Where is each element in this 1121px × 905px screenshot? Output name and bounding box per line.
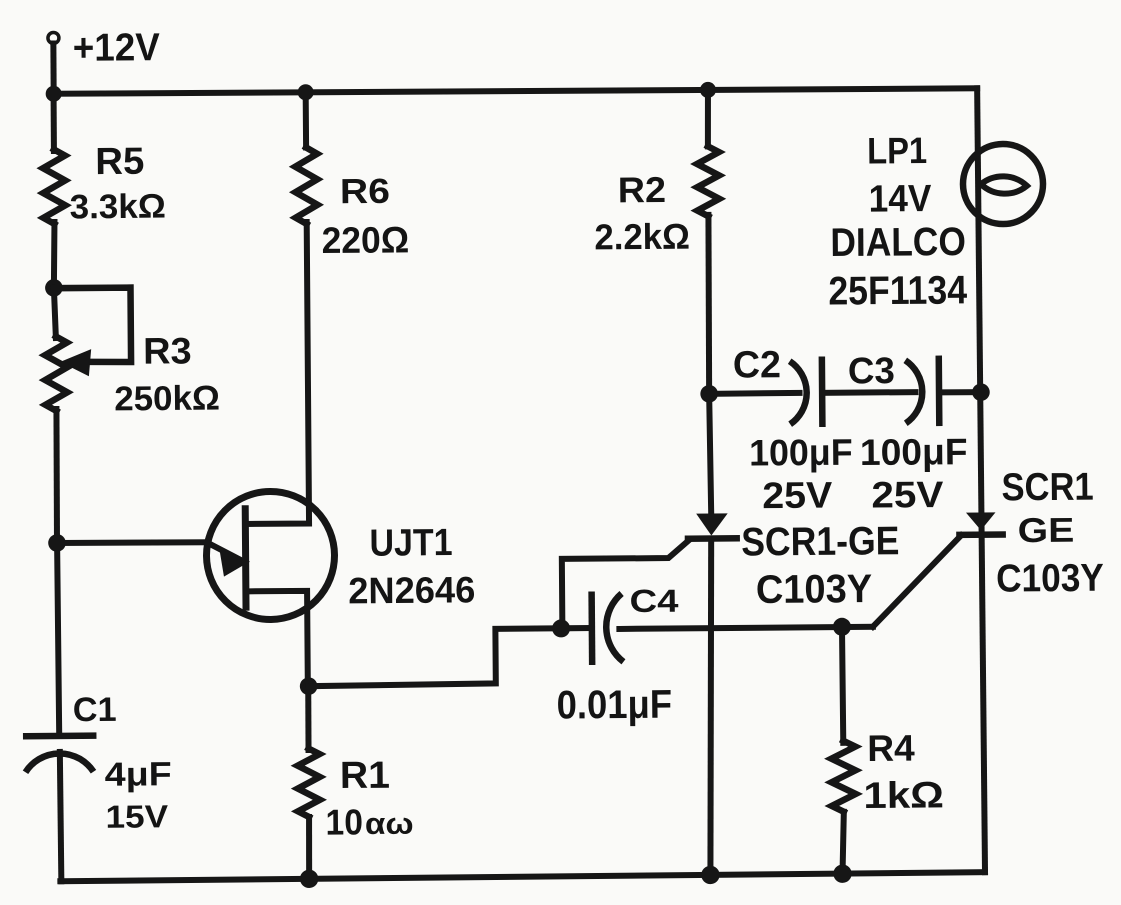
wire R3 wiper loop: [54, 288, 131, 363]
svg-text:C103Y: C103Y: [996, 557, 1104, 601]
svg-text:UJT1: UJT1: [369, 522, 452, 565]
capacitor C1 plate top: [26, 732, 93, 739]
svg-text:R5: R5: [95, 141, 144, 183]
op-amp U1 UJT1 circle: [206, 491, 335, 620]
capacitor C2 plate curved: [790, 361, 807, 424]
capacitor C1 plate curved: [25, 753, 93, 772]
resistor R2: [697, 146, 720, 216]
wire emitter horizontal: [57, 542, 207, 544]
wire R3 to emitter node: [56, 409, 58, 543]
node R2 top junction: [700, 82, 716, 98]
svg-text:2.2kΩ: 2.2kΩ: [594, 216, 690, 258]
svg-text:10: 10: [325, 801, 363, 842]
capacitor C4 plate straight: [588, 595, 595, 662]
wire R4 bottom lead: [842, 812, 844, 874]
svg-text:15V: 15V: [105, 798, 169, 834]
wire SCR1 gate diagonal: [872, 535, 962, 626]
svg-text:250kΩ: 250kΩ: [114, 380, 220, 419]
capacitor C3 plate straight: [936, 359, 943, 423]
wire cap row node to SCR anode: [709, 394, 711, 512]
lamp LP1 filament lens: [981, 176, 1027, 194]
thyristor SCR1 triangle: [966, 512, 996, 530]
svg-text:25V: 25V: [762, 475, 833, 517]
terminal +12V: [48, 32, 59, 43]
wire emitter node to C1: [57, 543, 59, 733]
svg-text:R1: R1: [340, 755, 390, 797]
wire cap row: [709, 390, 799, 397]
capacitor C2 plate straight: [819, 360, 826, 424]
svg-text:25V: 25V: [871, 474, 944, 516]
svg-text:C1: C1: [73, 691, 117, 729]
wire SCR1-GE cathode down: [708, 539, 714, 875]
potentiometer R3 arrow: [60, 349, 91, 376]
svg-text:LP1: LP1: [867, 130, 927, 171]
svg-text:C3: C3: [848, 350, 895, 391]
node R4 top junction: [833, 618, 851, 636]
wire R1 bottom lead: [306, 817, 313, 879]
svg-text:100μF: 100μF: [860, 431, 968, 473]
node emitter junction: [48, 534, 66, 552]
transistor UJT1 base bar: [242, 509, 250, 607]
resistor R6: [295, 147, 318, 224]
svg-text:R4: R4: [867, 728, 915, 769]
svg-text:2N2646: 2N2646: [348, 569, 475, 611]
svg-text:R2: R2: [618, 169, 667, 210]
node R6 top junction: [298, 84, 314, 100]
svg-text:R6: R6: [340, 172, 390, 211]
node SCR1-GE bottom junction: [701, 866, 720, 885]
capacitor C3 plate curved: [905, 360, 922, 423]
wire R6 top lead: [303, 92, 309, 147]
wire bottom rail: [60, 872, 985, 881]
wire step B1 to C4 node horizontal1: [308, 628, 561, 686]
svg-text:100μF: 100μF: [749, 432, 853, 474]
node left rail top junction: [46, 86, 62, 102]
node R3 top junction: [45, 279, 63, 297]
svg-text:14V: 14V: [869, 178, 933, 220]
wire R4 top lead: [842, 627, 843, 743]
svg-text:25F1134: 25F1134: [828, 268, 968, 313]
svg-text:220Ω: 220Ω: [321, 219, 409, 261]
thyristor SCR1-GE triangle: [696, 513, 728, 535]
wire R2 to cap row: [708, 215, 710, 394]
node cap row left junction: [700, 385, 718, 403]
wire emitter diagonal: [207, 542, 246, 563]
wire C1 to bottom rail: [60, 752, 62, 881]
capacitor C4 plate curved: [606, 594, 623, 662]
potentiometer R3: [45, 336, 68, 411]
wire C4 to R4 node: [619, 627, 872, 629]
svg-text:αω: αω: [365, 808, 414, 841]
wire terminal lead: [50, 43, 56, 93]
lamp LP1: [963, 144, 1044, 225]
node R4 bottom junction: [833, 864, 852, 883]
wire C4 node to plate: [561, 625, 589, 631]
svg-text:0.01μF: 0.01μF: [557, 683, 673, 728]
wire left rail upper: [50, 94, 57, 151]
svg-text:C103Y: C103Y: [756, 567, 873, 612]
wire R3 top lead: [54, 288, 56, 338]
svg-text:4μF: 4μF: [105, 756, 172, 794]
wire R2 top lead: [704, 90, 711, 146]
svg-text:GE: GE: [1018, 512, 1075, 550]
svg-text:C4: C4: [629, 583, 678, 619]
wire C4 node up: [562, 540, 690, 628]
svg-text:SCR1: SCR1: [1001, 466, 1094, 510]
resistor R5: [43, 149, 66, 224]
svg-text:DIALCO: DIALCO: [830, 220, 966, 265]
resistor R1: [298, 748, 321, 817]
resistor R4: [831, 741, 856, 812]
wire right rail: [977, 88, 985, 872]
wire R6 to UJT B2: [246, 222, 309, 524]
svg-text:C2: C2: [733, 344, 781, 386]
node C4 left junction: [552, 619, 570, 637]
node R1 bottom junction: [300, 870, 319, 889]
wire C2 to C3: [822, 389, 915, 396]
wire R1 top lead: [305, 686, 312, 750]
svg-text:SCR1-GE: SCR1-GE: [741, 519, 900, 564]
svg-text:R3: R3: [143, 330, 192, 371]
node UJT B1 / R1 junction: [300, 677, 318, 695]
thyristor SCR1-GE cathode bar: [688, 535, 737, 542]
svg-text:+12V: +12V: [73, 26, 160, 70]
node cap row right junction: [972, 383, 990, 401]
transistor UJT1 emitter arrow: [219, 548, 246, 577]
wire R5 to R3 node: [53, 222, 55, 288]
svg-text:3.3kΩ: 3.3kΩ: [70, 188, 166, 227]
wire top rail: [54, 87, 977, 96]
wire UJT B1 lead: [249, 591, 308, 687]
wire C3 to right rail: [939, 389, 981, 396]
thyristor SCR1 cathode bar: [959, 531, 1002, 538]
svg-text:1kΩ: 1kΩ: [863, 774, 944, 816]
